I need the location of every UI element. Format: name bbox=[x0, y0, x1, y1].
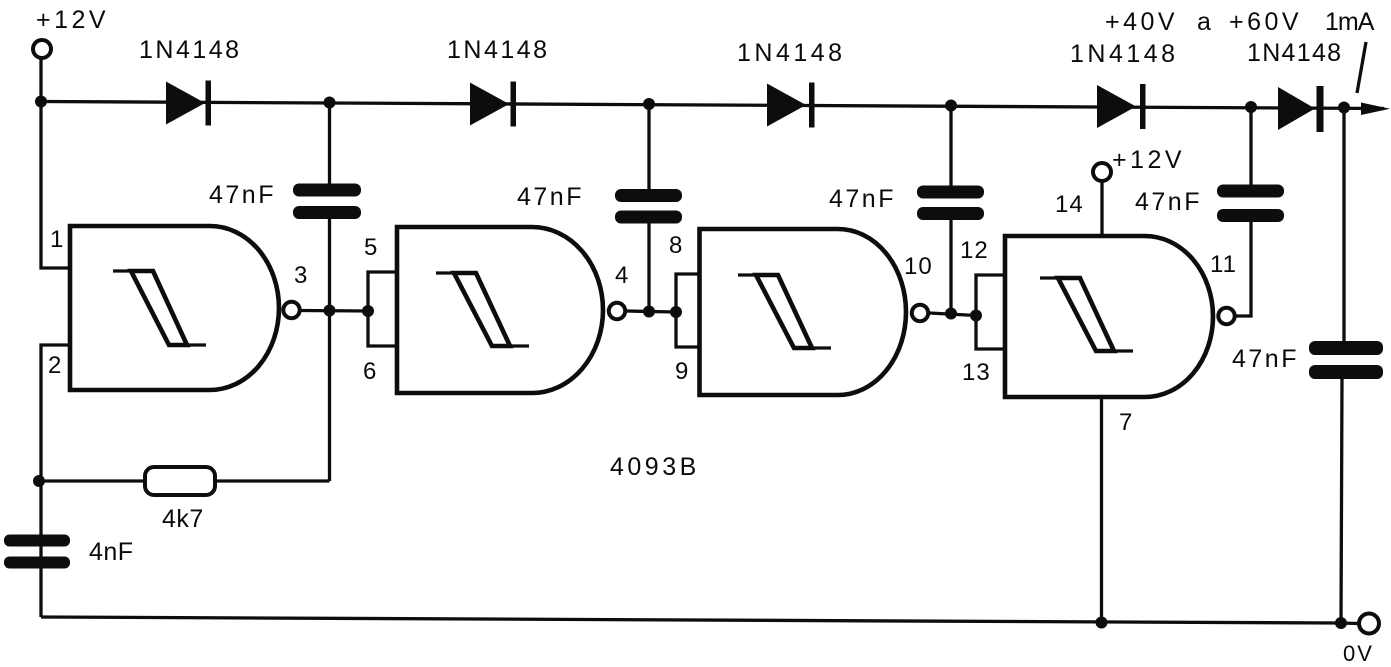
terminal 0V bbox=[1359, 614, 1379, 634]
diode D5 1N4148 bbox=[1278, 86, 1324, 132]
svg-text:6: 6 bbox=[363, 358, 377, 385]
wire U1B output bbox=[627, 311, 677, 312]
bubble U1D output bbox=[1218, 308, 1234, 324]
schmitt symbol U1C bbox=[738, 275, 831, 348]
svg-text:+60V: +60V bbox=[1229, 8, 1302, 36]
bubble U1A output bbox=[283, 302, 299, 318]
wire cap C4 column lower to gate4 output bbox=[1235, 222, 1251, 316]
wire top rail bbox=[41, 102, 1384, 109]
wire right column lower bbox=[1341, 379, 1342, 623]
wire bracket U2 inputs bbox=[368, 272, 397, 346]
capacitor C1 47nF bbox=[293, 184, 361, 220]
diode D4 1N4148 bbox=[1097, 84, 1146, 129]
wire cap C2 column lower bbox=[647, 224, 650, 312]
svg-text:1: 1 bbox=[50, 226, 64, 253]
nand gate U1C bbox=[700, 229, 907, 395]
wire bottom rail bbox=[41, 617, 1358, 624]
nand gate U1D bbox=[1005, 236, 1213, 397]
schmitt symbol U1B bbox=[436, 273, 529, 346]
svg-text:1mA: 1mA bbox=[1325, 8, 1375, 36]
schmitt symbol U1D bbox=[1040, 278, 1133, 351]
svg-text:4k7: 4k7 bbox=[162, 505, 204, 533]
capacitor C3 47nF bbox=[917, 186, 984, 221]
node rail 2 bbox=[324, 97, 336, 109]
wire U1A output bbox=[301, 309, 369, 313]
node pin10 cap bbox=[945, 308, 957, 320]
svg-text:5: 5 bbox=[364, 234, 378, 261]
svg-text:47nF: 47nF bbox=[1135, 188, 1202, 216]
resistor R1 4k7 bbox=[145, 467, 215, 495]
capacitor C5 47nF output bbox=[1309, 341, 1383, 379]
wire cap C1 column lower to resistor bbox=[328, 219, 331, 481]
svg-text:1N4148: 1N4148 bbox=[737, 39, 846, 67]
wire cap C1 column upper bbox=[328, 103, 331, 185]
arrow output bbox=[1361, 103, 1390, 116]
svg-text:1N4148: 1N4148 bbox=[1070, 40, 1179, 68]
svg-text:1N4148: 1N4148 bbox=[1247, 39, 1342, 67]
svg-text:4nF: 4nF bbox=[89, 538, 134, 566]
node rail 1 bbox=[35, 96, 47, 108]
capacitor C2 47nF bbox=[615, 189, 682, 224]
wire pin1 feed bbox=[41, 102, 70, 269]
wire leader 1mA bbox=[1357, 42, 1366, 93]
wire cap C3 column upper bbox=[949, 106, 952, 187]
bubble U1B output bbox=[609, 303, 625, 319]
svg-text:0V: 0V bbox=[1343, 641, 1374, 666]
svg-text:1N4148: 1N4148 bbox=[139, 36, 242, 64]
capacitor C4 47nF bbox=[1217, 185, 1284, 223]
schmitt symbol U1A bbox=[113, 271, 206, 345]
node pin8-9 bracket bbox=[670, 306, 682, 318]
wire cap C2 column upper bbox=[647, 104, 650, 190]
svg-text:13: 13 bbox=[962, 359, 991, 386]
svg-text:+12V: +12V bbox=[36, 6, 109, 34]
svg-text:12: 12 bbox=[960, 237, 989, 264]
wire resistor right bbox=[215, 479, 330, 482]
svg-text:11: 11 bbox=[1210, 251, 1237, 278]
svg-text:+40V: +40V bbox=[1105, 8, 1178, 36]
node resistor left bbox=[33, 475, 45, 487]
node pin12-13 bracket bbox=[970, 310, 982, 322]
svg-text:4: 4 bbox=[615, 262, 629, 289]
svg-text:47nF: 47nF bbox=[829, 185, 896, 213]
nand gate U1B bbox=[397, 227, 603, 393]
diode D3 1N4148 bbox=[767, 83, 815, 128]
node rail 6 bbox=[1338, 102, 1350, 114]
wire pin 7 bbox=[1100, 397, 1103, 623]
node rail 3 bbox=[643, 98, 655, 110]
wire cap C4 column upper bbox=[1249, 107, 1252, 186]
capacitor C6 4nF bbox=[4, 535, 70, 569]
svg-text:7: 7 bbox=[1119, 409, 1133, 436]
svg-text:a: a bbox=[1197, 8, 1214, 36]
svg-text:47nF: 47nF bbox=[209, 181, 276, 209]
node rail 4 bbox=[945, 100, 957, 112]
node ground right bbox=[1335, 617, 1347, 629]
svg-text:8: 8 bbox=[669, 232, 683, 259]
terminal +12V right bbox=[1093, 163, 1111, 181]
svg-text:1N4148: 1N4148 bbox=[447, 36, 550, 64]
svg-text:+12V: +12V bbox=[1112, 146, 1185, 174]
svg-text:47nF: 47nF bbox=[1232, 345, 1299, 373]
wire cap C3 column lower bbox=[949, 220, 952, 314]
wire pin 14 bbox=[1100, 182, 1103, 237]
node pin5-6 bracket bbox=[362, 305, 374, 317]
wire U1C output bbox=[930, 313, 977, 316]
wire resistor left bbox=[39, 479, 145, 482]
diode D2 1N4148 bbox=[470, 82, 516, 127]
svg-text:3: 3 bbox=[294, 262, 308, 289]
node pin7 ground bbox=[1096, 617, 1108, 629]
wire bracket U4 inputs bbox=[976, 275, 1005, 349]
svg-text:9: 9 bbox=[675, 358, 689, 385]
wire pin2 feed bbox=[41, 345, 70, 617]
svg-text:10: 10 bbox=[904, 253, 933, 280]
nand gate U1A bbox=[70, 226, 279, 390]
diode D1 1N4148 bbox=[166, 81, 211, 126]
bubble U1C output bbox=[912, 305, 928, 321]
label +40V a +60V 1mA bbox=[1105, 8, 1375, 36]
terminal +12V left bbox=[33, 40, 51, 58]
wire +12V drop bbox=[39, 59, 42, 102]
wire bracket U3 inputs bbox=[676, 274, 700, 347]
svg-text:4093B: 4093B bbox=[610, 453, 700, 481]
node pin3 cap bbox=[324, 305, 336, 317]
node rail 5 bbox=[1245, 101, 1257, 113]
svg-text:2: 2 bbox=[48, 352, 62, 379]
svg-text:47nF: 47nF bbox=[517, 183, 584, 211]
svg-text:14: 14 bbox=[1055, 191, 1084, 218]
node pin4 cap bbox=[643, 306, 655, 318]
wire right column upper bbox=[1342, 108, 1345, 342]
